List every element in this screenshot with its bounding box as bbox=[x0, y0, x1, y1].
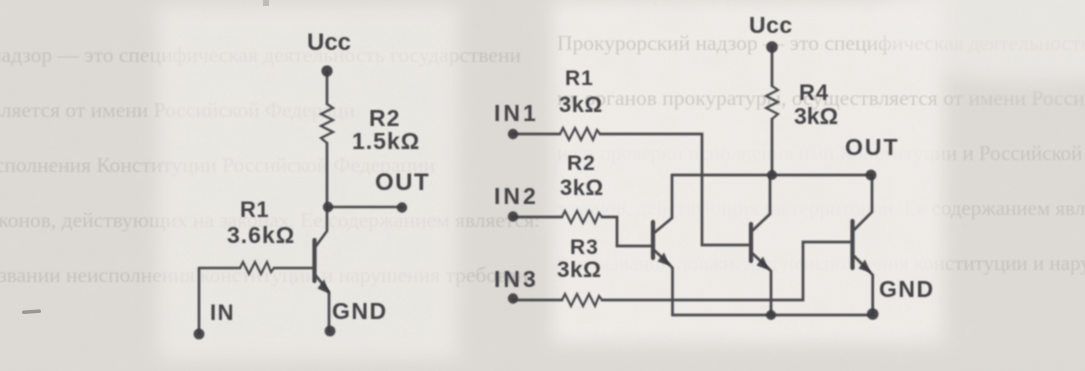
svg-text:3kΩ: 3kΩ bbox=[560, 175, 604, 200]
svg-text:Ucc: Ucc bbox=[749, 12, 793, 38]
emitter arrowhead Q1 bbox=[318, 280, 331, 295]
top edge tick bbox=[263, 0, 269, 6]
bleed-through text: right copy upper lines (visible) bbox=[557, 31, 1085, 110]
T3 collector bbox=[854, 175, 872, 230]
T1 emitter bbox=[654, 250, 673, 315]
terminal dot OUT bbox=[397, 202, 407, 212]
svg-text:OUT: OUT bbox=[845, 134, 900, 160]
svg-text:OUT: OUT bbox=[375, 169, 430, 196]
svg-text:R1: R1 bbox=[565, 67, 594, 90]
T3 emitter arrowhead bbox=[859, 260, 872, 274]
T2 emitter arrowhead bbox=[757, 257, 770, 271]
transistor T3 base bar bbox=[850, 221, 854, 268]
transistor T2 base bar bbox=[749, 224, 753, 261]
wire R2 bottom to OUT node bbox=[326, 143, 329, 207]
wire R3 to T3 base bbox=[602, 242, 851, 300]
junction dot GND rail T2 bbox=[766, 310, 776, 320]
wire IN2 with resistor R2 bbox=[513, 216, 562, 219]
GND rail bbox=[673, 314, 873, 317]
wire R4 to OUT rail bbox=[771, 119, 774, 175]
svg-text:3kΩ: 3kΩ bbox=[557, 257, 602, 282]
wire OUT node to OUT terminal bbox=[328, 206, 402, 209]
scan glare top-right bbox=[870, 0, 1085, 83]
svg-text:3kΩ: 3kΩ bbox=[794, 103, 838, 129]
wire Ucc to R2 top bbox=[326, 71, 329, 104]
terminal dot OUT right bbox=[866, 170, 877, 181]
terminal dot IN1 bbox=[508, 129, 518, 139]
wire base with resistor R1 bbox=[199, 267, 240, 270]
left circuit pasted patch bbox=[158, 5, 458, 360]
emitter Q1 bbox=[315, 274, 330, 331]
svg-text:3kΩ: 3kΩ bbox=[559, 92, 603, 117]
junction dot GND rail T3 bbox=[867, 308, 879, 320]
svg-text:Ucc: Ucc bbox=[307, 29, 351, 56]
svg-text:R3: R3 bbox=[570, 236, 599, 259]
resistor R1 (horizontal zigzag) bbox=[240, 262, 274, 274]
resistor R4 (vertical zigzag) bbox=[766, 86, 778, 119]
wire IN1 with resistor R1 bbox=[513, 133, 560, 136]
transistor Q1 base bar bbox=[312, 240, 316, 281]
wire IN3 with resistor R3 bbox=[513, 299, 562, 302]
wire collector bbox=[316, 207, 327, 246]
junction dot OUT node bbox=[323, 202, 333, 212]
terminal dot IN bbox=[194, 329, 205, 340]
svg-text:GND: GND bbox=[332, 298, 388, 324]
svg-text:R1: R1 bbox=[240, 197, 269, 222]
resistor R2 (zigzag) bbox=[562, 211, 602, 223]
svg-text:IN3: IN3 bbox=[494, 266, 539, 292]
transistor T1 base bar bbox=[651, 222, 655, 258]
terminal dot Ucc bbox=[321, 65, 332, 76]
T3 emitter bbox=[854, 256, 873, 315]
wire IN vertical bbox=[198, 268, 201, 334]
svg-text:GND: GND bbox=[879, 276, 935, 302]
wire R1 to T2 base bbox=[600, 134, 750, 245]
svg-text:1.5kΩ: 1.5kΩ bbox=[352, 128, 420, 154]
resistor R3 (zigzag) bbox=[562, 294, 602, 306]
terminal dot IN2 bbox=[508, 211, 518, 221]
T1 collector bbox=[654, 175, 672, 233]
T2 emitter bbox=[752, 253, 771, 315]
svg-text:R2: R2 bbox=[567, 152, 596, 175]
svg-text:IN1: IN1 bbox=[494, 100, 539, 126]
resistor R1 (zigzag) bbox=[560, 128, 600, 140]
svg-text:R4: R4 bbox=[799, 80, 829, 105]
junction dot OUT rail / R4 bbox=[767, 170, 777, 180]
wire Ucc to R4 bbox=[771, 47, 774, 86]
wire R2 jog to T1 base bbox=[602, 217, 651, 246]
terminal dot Ucc right bbox=[766, 41, 778, 53]
bleed-through text: left copy bbox=[0, 43, 540, 287]
OUT rail bbox=[672, 174, 871, 177]
T1 emitter arrowhead bbox=[658, 253, 671, 267]
svg-text:3.6kΩ: 3.6kΩ bbox=[227, 222, 295, 248]
bleed-through text: right copy lower lines (behind right patch) bbox=[557, 141, 1085, 275]
svg-text:IN: IN bbox=[210, 300, 235, 325]
terminal dot IN3 bbox=[508, 293, 518, 303]
resistor R2 (vertical zigzag) bbox=[321, 104, 333, 143]
right circuit pasted patch bbox=[552, 0, 944, 344]
terminal dot GND bbox=[325, 326, 336, 337]
stray pen dash bottom-left bbox=[22, 309, 41, 314]
T2 collector bbox=[752, 175, 770, 231]
svg-text:IN2: IN2 bbox=[494, 183, 539, 209]
